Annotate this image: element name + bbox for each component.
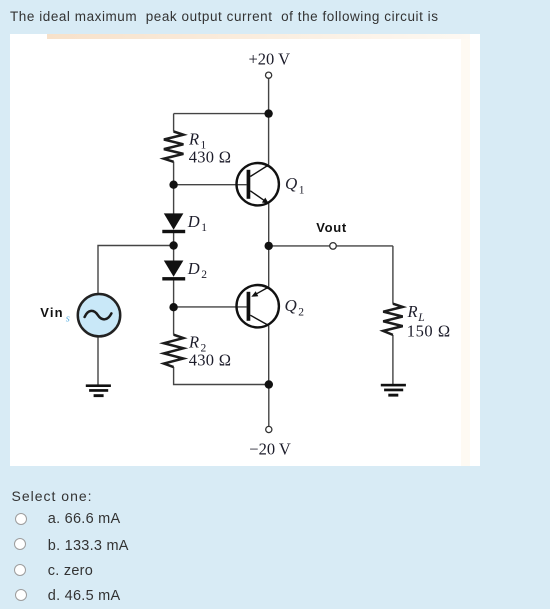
svg-text:2: 2 [201, 269, 207, 281]
wire node A to Vin [98, 246, 174, 294]
wire Q1 emitter to Vout node [268, 204, 270, 246]
wire node to D1 [173, 185, 175, 214]
wire RL bottom lead [392, 335, 394, 384]
label Vout [316, 220, 347, 235]
label 150 ohm (RL) [407, 322, 451, 341]
label 430 ohm (R2) [189, 351, 232, 370]
label Q2 [285, 296, 305, 319]
ground (Vin) [86, 384, 111, 397]
svg-text:D: D [187, 212, 200, 231]
label Vin [40, 305, 70, 325]
label R1 [188, 130, 207, 152]
resistor R1 [164, 132, 184, 162]
radio option a [15, 513, 27, 525]
wire R1 bottom lead [173, 162, 175, 185]
terminal -20V [266, 426, 272, 432]
wire R1 top lead [173, 114, 175, 132]
wire bottom rail to -20V terminal [268, 385, 270, 427]
svg-text:R: R [188, 333, 199, 352]
junction dot Vout node [265, 242, 273, 250]
source Vin [78, 294, 120, 336]
junction dot R1/D1/Q1 base [169, 181, 177, 189]
question text [10, 9, 439, 24]
wire Vin to ground [97, 338, 99, 385]
svg-text:R: R [188, 130, 199, 149]
svg-text:+20 V: +20 V [249, 50, 291, 69]
svg-text:1: 1 [299, 184, 305, 196]
svg-text:−20 V: −20 V [249, 440, 291, 459]
wire node B to R2 [173, 307, 175, 335]
svg-text:430 Ω: 430 Ω [189, 351, 232, 370]
label 430 ohm (R1) [189, 148, 232, 167]
wire node A to D2 [173, 246, 175, 262]
svg-text:430 Ω: 430 Ω [189, 148, 232, 167]
junction node A (D1-D2, Vin) [169, 241, 177, 249]
resistor RL [383, 304, 403, 335]
radio option b [14, 538, 26, 550]
select one label [12, 488, 93, 504]
wire D2 to node B [173, 281, 175, 308]
wire Vout horizontal [269, 245, 393, 247]
label RL [407, 302, 425, 324]
wire +20V to Q1 collector [268, 78, 270, 165]
svg-text:Vout: Vout [316, 220, 347, 235]
svg-text:Q: Q [285, 296, 297, 315]
diode D2 [162, 261, 185, 281]
white panel [10, 34, 480, 466]
wire Q2 collector to bottom rail [268, 326, 270, 385]
radio option c [14, 564, 26, 576]
resistor R2 [164, 335, 184, 367]
label -20 V [249, 440, 291, 459]
terminal Vout [330, 243, 337, 250]
wire D1 to node A [173, 233, 175, 246]
junction node B (D2-R2, Q2 base) [169, 303, 177, 311]
radio option d [15, 589, 27, 601]
svg-text:Q: Q [285, 174, 297, 193]
svg-text:s: s [66, 314, 70, 325]
label Q1 [285, 174, 305, 197]
wire Q2 base [174, 306, 247, 308]
svg-text:R: R [407, 302, 418, 321]
right cream band [461, 39, 470, 466]
junction dot top rail [264, 109, 272, 117]
svg-text:2: 2 [298, 306, 304, 318]
transistor Q1 [237, 163, 279, 205]
label D2 [187, 259, 207, 281]
tan strip [47, 34, 470, 39]
transistor Q2 [237, 285, 279, 327]
wire Q1 base [174, 184, 247, 186]
label +20 V [249, 50, 291, 69]
ground (RL) [381, 384, 406, 397]
svg-text:D: D [187, 259, 200, 278]
svg-text:Vin: Vin [40, 305, 64, 320]
diode D1 [162, 213, 185, 233]
junction dot bottom rail [265, 380, 273, 388]
wire R2 to bottom rail [174, 367, 269, 385]
label R2 [188, 333, 207, 355]
wire RL top lead [392, 246, 394, 304]
label D1 [187, 212, 207, 234]
terminal +20V [266, 72, 272, 78]
svg-text:150 Ω: 150 Ω [407, 322, 451, 341]
svg-text:1: 1 [201, 222, 207, 234]
wire top rail [174, 113, 269, 115]
wire Vout node to Q2 emitter [268, 246, 270, 287]
